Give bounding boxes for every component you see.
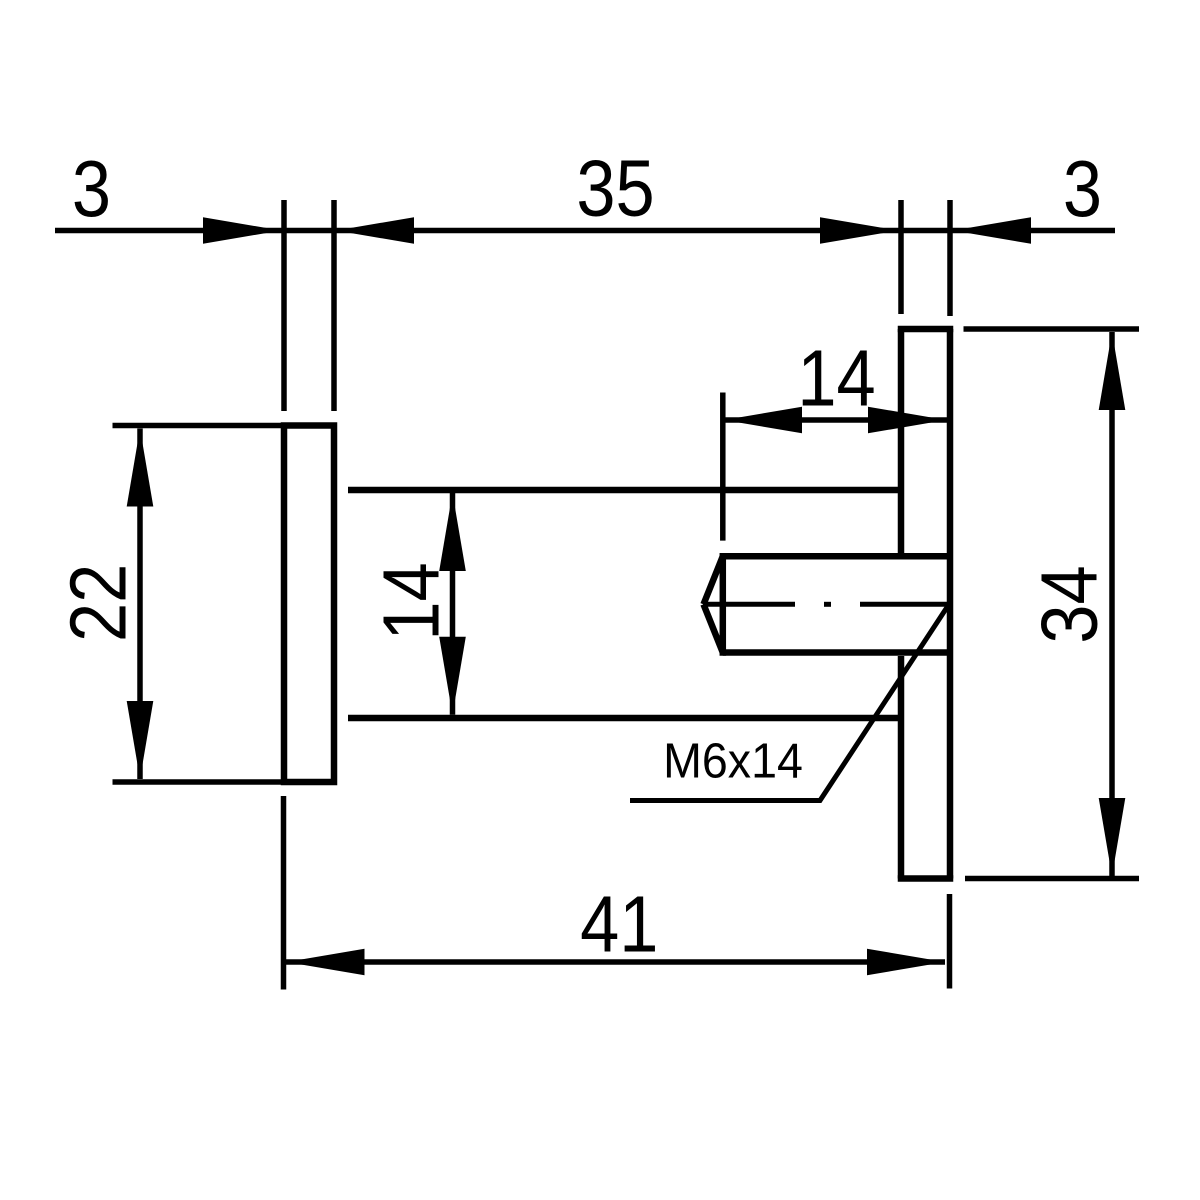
arrow right 14 thread: [868, 407, 946, 434]
extension line 34 top: [964, 326, 1140, 332]
flange outline right edge: [947, 329, 954, 879]
dim text 22 rotated: [53, 564, 142, 642]
arrow down 22: [127, 701, 154, 779]
svg-text:14: 14: [797, 333, 875, 422]
thread left edge: [720, 553, 727, 656]
extension line cap right face: [331, 200, 337, 411]
arrow down 34: [1099, 798, 1126, 876]
dim text 14 thread: [797, 333, 875, 422]
flange outline bottom edge: [901, 875, 950, 882]
dim text 41: [580, 879, 658, 968]
label M6x14: [663, 734, 803, 788]
extension line 41 right: [947, 894, 953, 989]
extension line 22 bottom: [113, 779, 285, 785]
flange outline top edge: [901, 326, 950, 333]
arrow up 34: [1099, 332, 1126, 410]
arrow up 22: [127, 429, 154, 507]
svg-text:41: 41: [580, 879, 658, 968]
dim text 14 rotated: [366, 562, 455, 640]
thread cone bottom slant: [704, 604, 723, 652]
dimension line 14 shaft: [450, 493, 456, 715]
centerline dash 2: [860, 602, 947, 607]
dimension line 34: [1109, 332, 1115, 876]
arrow right at left cap face: [203, 217, 281, 244]
cap head outline: [284, 426, 334, 783]
arrow right at flange left face: [820, 217, 898, 244]
dim text 3 right: [1063, 144, 1102, 233]
svg-text:34: 34: [1024, 565, 1113, 643]
svg-text:35: 35: [576, 143, 654, 232]
dim text 35: [576, 143, 654, 232]
svg-text:3: 3: [72, 144, 111, 233]
flange outline left edge upper segment: [898, 329, 905, 553]
svg-text:M6x14: M6x14: [663, 734, 803, 788]
extension line 41 left: [281, 796, 287, 990]
extension line 14 thread: [720, 393, 726, 541]
extension line cap left face: [281, 200, 287, 411]
arrow left at flange right face: [953, 217, 1031, 244]
thread top edge: [723, 553, 950, 560]
extension line 22 top: [113, 423, 285, 429]
arrow up 14 shaft: [439, 493, 466, 571]
dimension line 41: [286, 959, 945, 965]
flange outline left edge lower segment: [898, 656, 905, 879]
leader line M6x14: [630, 605, 949, 801]
dim text 34 rotated: [1024, 565, 1113, 643]
shaft top line: [348, 487, 901, 494]
centerline dash 1: [703, 602, 795, 607]
centerline dot: [824, 602, 831, 607]
extension line flange right face: [947, 200, 953, 316]
svg-text:22: 22: [53, 564, 142, 642]
dim text 3 left: [72, 144, 111, 233]
arrow left 41: [287, 949, 365, 976]
thread cone top slant: [704, 556, 723, 604]
svg-text:14: 14: [366, 562, 455, 640]
arrow down 14 shaft: [439, 637, 466, 715]
dimension line 22: [137, 429, 143, 780]
svg-text:3: 3: [1063, 144, 1102, 233]
extension line flange left face: [898, 200, 904, 314]
arrow left at left cap inner face: [336, 217, 414, 244]
thread bottom edge: [723, 649, 950, 656]
arrow right 41: [867, 949, 945, 976]
extension line 34 bottom: [965, 876, 1139, 882]
dimension line 14 thread: [723, 417, 947, 423]
arrow left 14 thread: [724, 407, 802, 434]
top dimension line (3 / 35 / 3): [55, 228, 1115, 234]
shaft bottom line: [348, 715, 901, 722]
